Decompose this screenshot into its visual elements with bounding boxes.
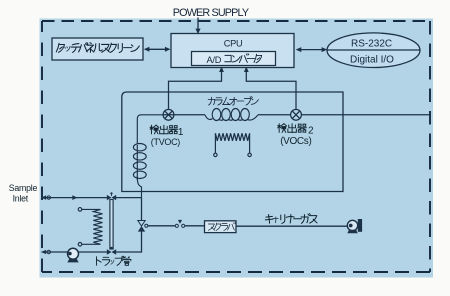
wire CPU to RS-232C (double arrow) bbox=[298, 49, 325, 51]
wire column line through detectors bbox=[163, 114, 205, 116]
label trap tube (torappu kan) bbox=[96, 256, 130, 265]
svg-text:Sample: Sample bbox=[9, 183, 38, 193]
coil sample loop (vertical, 4 loops) bbox=[133, 115, 163, 198]
box column oven bbox=[122, 92, 343, 192]
wire vent line bbox=[42, 251, 68, 253]
trap heater spring bbox=[78, 208, 102, 247]
blue instrument panel background bbox=[40, 19, 434, 278]
pump P1 bbox=[68, 248, 79, 259]
label column oven (karamu obun) bbox=[208, 96, 258, 105]
svg-text:CPU: CPU bbox=[224, 39, 243, 49]
ellipse RS-232C / Digital I/O bbox=[327, 33, 420, 68]
valve V3 (three-way) bbox=[138, 221, 145, 227]
svg-text:POWER SUPPLY: POWER SUPPLY bbox=[173, 7, 249, 19]
detector D1 (TVOC) bbox=[163, 109, 174, 120]
flow arrow on sample line bbox=[72, 195, 77, 200]
wire touch panel to CPU (double arrow) bbox=[146, 48, 169, 50]
label scrubber (sukuraba) bbox=[208, 222, 235, 230]
svg-text:2: 2 bbox=[308, 126, 314, 137]
box scrubber bbox=[205, 221, 237, 233]
svg-text:A/D: A/D bbox=[207, 55, 222, 65]
wire riser from vent line to three-way valve and sample tee bbox=[141, 232, 143, 253]
label touch panel screen bbox=[56, 43, 139, 53]
svg-text:RS-232C: RS-232C bbox=[351, 39, 392, 50]
sample inlet port arrow bbox=[41, 195, 46, 200]
label detector 2 bbox=[278, 124, 307, 133]
wire detector2 signal to A/D bbox=[246, 69, 296, 109]
box CPU bbox=[171, 34, 294, 68]
wire power supply arrow bbox=[197, 18, 199, 30]
box touch panel screen bbox=[52, 38, 143, 60]
valve V2 (trap bottom) bbox=[107, 247, 116, 255]
svg-text:Digital I/O: Digital I/O bbox=[350, 55, 394, 66]
box A/D converter bbox=[192, 52, 276, 66]
label carrier gas (kyariya gasu) bbox=[265, 214, 317, 224]
svg-text:(VOCs): (VOCs) bbox=[280, 136, 311, 147]
detector D2 (VOCs) bbox=[291, 109, 302, 120]
label detector 1 bbox=[150, 125, 178, 134]
wire detector1 signal to A/D bbox=[169, 69, 222, 109]
svg-text:Inlet: Inlet bbox=[13, 193, 29, 203]
trap tube (double line) bbox=[110, 200, 113, 250]
vent port arrow bbox=[41, 250, 46, 255]
valve V1 (trap top) bbox=[107, 192, 116, 200]
dashed enclosure border bbox=[42, 20, 430, 22]
wire sample line bbox=[42, 197, 107, 199]
gas cylinder / regulator bbox=[347, 220, 357, 230]
heater (zigzag) in oven bbox=[214, 133, 252, 156]
coil column (4 loops) bbox=[205, 109, 258, 121]
svg-text:(TVOC): (TVOC) bbox=[151, 137, 180, 147]
valve V4 (carrier inlet) bbox=[175, 224, 178, 227]
wire carrier gas line bbox=[148, 225, 175, 227]
